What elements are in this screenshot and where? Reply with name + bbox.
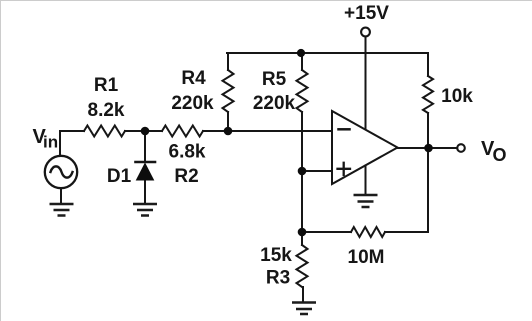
svg-text:220k: 220k [253,93,296,114]
svg-text:+15V: +15V [344,3,389,24]
svg-text:D1: D1 [107,166,132,187]
svg-text:in: in [43,133,58,152]
svg-text:R5: R5 [262,69,287,90]
svg-text:R3: R3 [266,268,290,289]
svg-text:10M: 10M [348,247,385,268]
svg-text:220k: 220k [171,93,214,114]
svg-text:6.8k: 6.8k [169,141,206,162]
svg-text:O: O [493,145,507,165]
svg-text:R1: R1 [94,75,119,96]
svg-text:10k: 10k [441,86,473,107]
svg-text:R2: R2 [174,166,198,187]
svg-text:15k: 15k [260,245,292,266]
svg-text:R4: R4 [181,68,206,89]
svg-text:8.2k: 8.2k [88,100,125,121]
